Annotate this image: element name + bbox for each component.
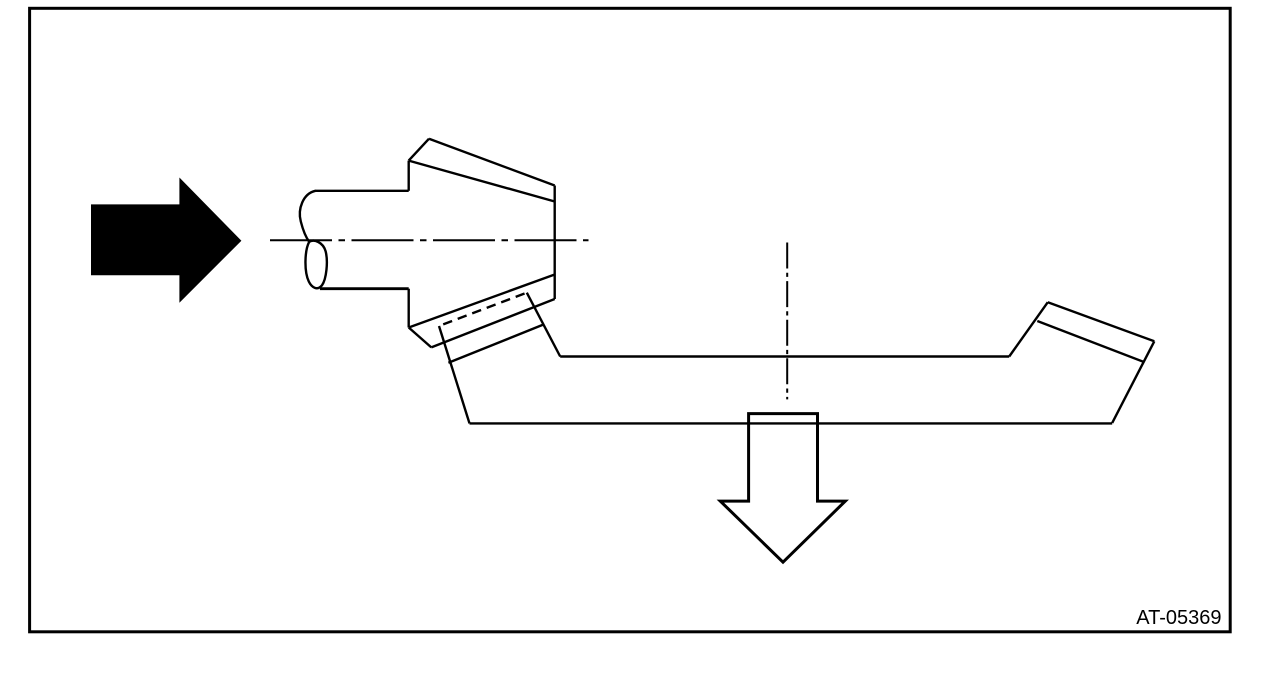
pinion gear: top inner edge: [409, 161, 555, 202]
shaft break loop (ellipse): [305, 241, 326, 288]
pinion gear: bottom-left chamfer: [409, 328, 432, 348]
ring gear: right tooth band lower edge: [1037, 321, 1143, 362]
pinion axis centerline (horizontal dash-dot): [270, 239, 589, 241]
ring gear: right tooth band top edge: [1048, 302, 1155, 341]
pinion gear: top outer edge: [429, 139, 555, 186]
pinion gear: left vertical (bottom): [408, 289, 410, 328]
ring gear: bottom line: [470, 422, 1113, 424]
pinion gear: bottom inner edge: [409, 275, 555, 328]
ring gear: left outline: [439, 326, 470, 423]
pinion gear: left vertical (top): [408, 161, 410, 191]
pinion gear: top-left chamfer: [409, 139, 429, 161]
svg-text:AT-05369: AT-05369: [1136, 607, 1221, 629]
ring gear: right peak diagonal: [1009, 302, 1048, 356]
ring gear: left tooth band lower edge: [448, 325, 542, 363]
ring gear: top surface line: [560, 355, 1009, 357]
output arrow (hollow, pointing down): [720, 414, 845, 563]
ring gear: left peak diagonal: [527, 293, 560, 357]
pinion gear: bottom outer edge: [431, 299, 554, 347]
ring gear: hidden tooth edge (dashed): [439, 293, 527, 326]
ring gear axis centerline (vertical dash-dot): [786, 243, 788, 400]
pinion shaft bottom line: [320, 287, 409, 290]
ring gear: right outline: [1112, 341, 1154, 423]
pinion gear: right vertical edge: [554, 186, 556, 300]
pinion shaft top line: [315, 190, 409, 192]
shaft break curve (upper arc): [300, 191, 316, 242]
input arrow (solid black, pointing right): [91, 178, 241, 303]
